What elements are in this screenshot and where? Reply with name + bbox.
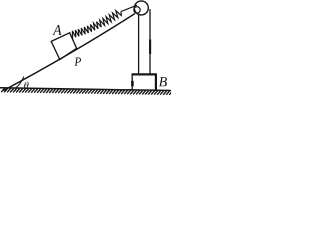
label P <box>74 58 81 66</box>
block B thick right edge <box>155 74 157 91</box>
block B <box>132 74 156 90</box>
spring lead to pulley <box>121 5 137 11</box>
label theta <box>24 82 28 89</box>
block A <box>51 33 76 60</box>
ground hatching <box>1 88 172 95</box>
label A <box>53 25 62 35</box>
right rope thick segment <box>149 40 151 55</box>
right rope <box>149 9 151 75</box>
ground <box>0 88 171 91</box>
spring <box>70 11 121 38</box>
left rope <box>138 15 140 75</box>
block B thick top edge <box>132 73 157 75</box>
label B <box>159 77 167 86</box>
block B left edge mark <box>131 81 134 87</box>
pulley wheel <box>134 1 148 15</box>
angle arc <box>15 77 24 89</box>
incline <box>4 14 136 91</box>
pulley axle <box>134 7 140 13</box>
